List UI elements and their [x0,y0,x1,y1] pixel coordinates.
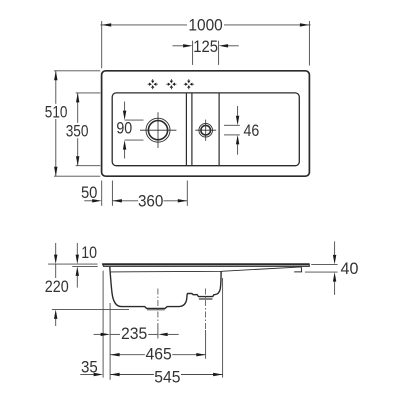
bowl section outline [110,267,221,309]
dim 10 ext line [48,263,98,265]
big drain crosshair vertical [157,112,159,148]
small bowl drain outer circle [199,123,213,137]
svg-text:350: 350 [66,122,89,141]
small bowl drain 46mm circle [201,125,211,135]
dim 46 arrows [237,106,239,116]
dim 90 text [116,121,133,134]
ext line sink left edge (side) [102,271,104,378]
dim 90 extension lines [125,119,144,121]
tap hole symbol 3 [184,79,194,89]
big drain crosshair horizontal [140,129,176,131]
dim 465 line [110,354,145,356]
right lip profile [294,267,301,272]
svg-text:235: 235 [121,324,147,343]
dim 510 line [55,71,57,104]
sink inner basin rect (top view) [112,93,299,166]
svg-text:90: 90 [116,119,132,138]
dim 1000 extension line left [101,21,103,68]
dim 90 arrows [124,102,126,111]
drainboard surface sloped line [111,267,302,272]
svg-text:510: 510 [45,102,68,121]
big bowl drain 90mm circle [148,121,167,140]
bottom ext lines of top view [101,181,103,206]
divider wall right line [191,93,193,165]
svg-text:125: 125 [193,37,218,56]
centerline small drain [205,289,207,331]
dim 235 line [94,333,101,335]
dim 35 arrow [80,374,93,376]
small bowl right wall [218,93,220,165]
sink outer rim (top view) [102,71,310,176]
dim 1000 line [100,24,187,26]
centerline big drain [157,289,159,325]
rim left end cap [102,264,104,267]
dim 545 line [110,374,154,376]
dim 125 arrows [173,45,184,47]
svg-text:50: 50 [81,183,98,202]
svg-text:360: 360 [138,191,164,210]
dim 46 extension lines [224,124,240,126]
big bowl drain hidden line [147,309,165,311]
svg-text:46: 46 [244,121,260,140]
dim 220 line [55,264,57,278]
dim 510 extension lines [54,70,100,72]
dim 40 ext lines [311,263,337,265]
dim 40 arrows [334,241,336,255]
small drain crosshair vertical [205,120,207,141]
svg-text:1000: 1000 [188,15,222,34]
tap hole symbol 2 [166,79,176,89]
svg-text:40: 40 [341,259,359,278]
svg-text:220: 220 [45,277,69,296]
dim 350 line [77,93,79,123]
side view rim top line [103,263,310,265]
dim 360 line [112,200,138,202]
ext line small bowl right wall (side) [222,278,224,378]
dim 220 bottom ext line [52,308,129,310]
svg-text:10: 10 [81,243,97,262]
dim 1000 extension line right [308,21,310,66]
dim 350 extension lines [76,92,101,94]
dim 50 arrow [84,200,93,202]
small drain crosshair horizontal [195,129,216,131]
small bowl drain recess lower line [199,298,213,300]
ext line bowl left wall (side) [109,303,111,380]
svg-text:545: 545 [154,367,180,386]
tap hole symbol 1 [148,79,158,89]
dim 125 extension lines [192,41,194,65]
rim right end cap [308,263,310,267]
divider wall left line [185,93,187,165]
big bowl drain outer circle [146,118,170,142]
svg-text:465: 465 [145,345,171,364]
dim 10 arrows [76,243,78,255]
side view rim bottom line [104,265,310,267]
